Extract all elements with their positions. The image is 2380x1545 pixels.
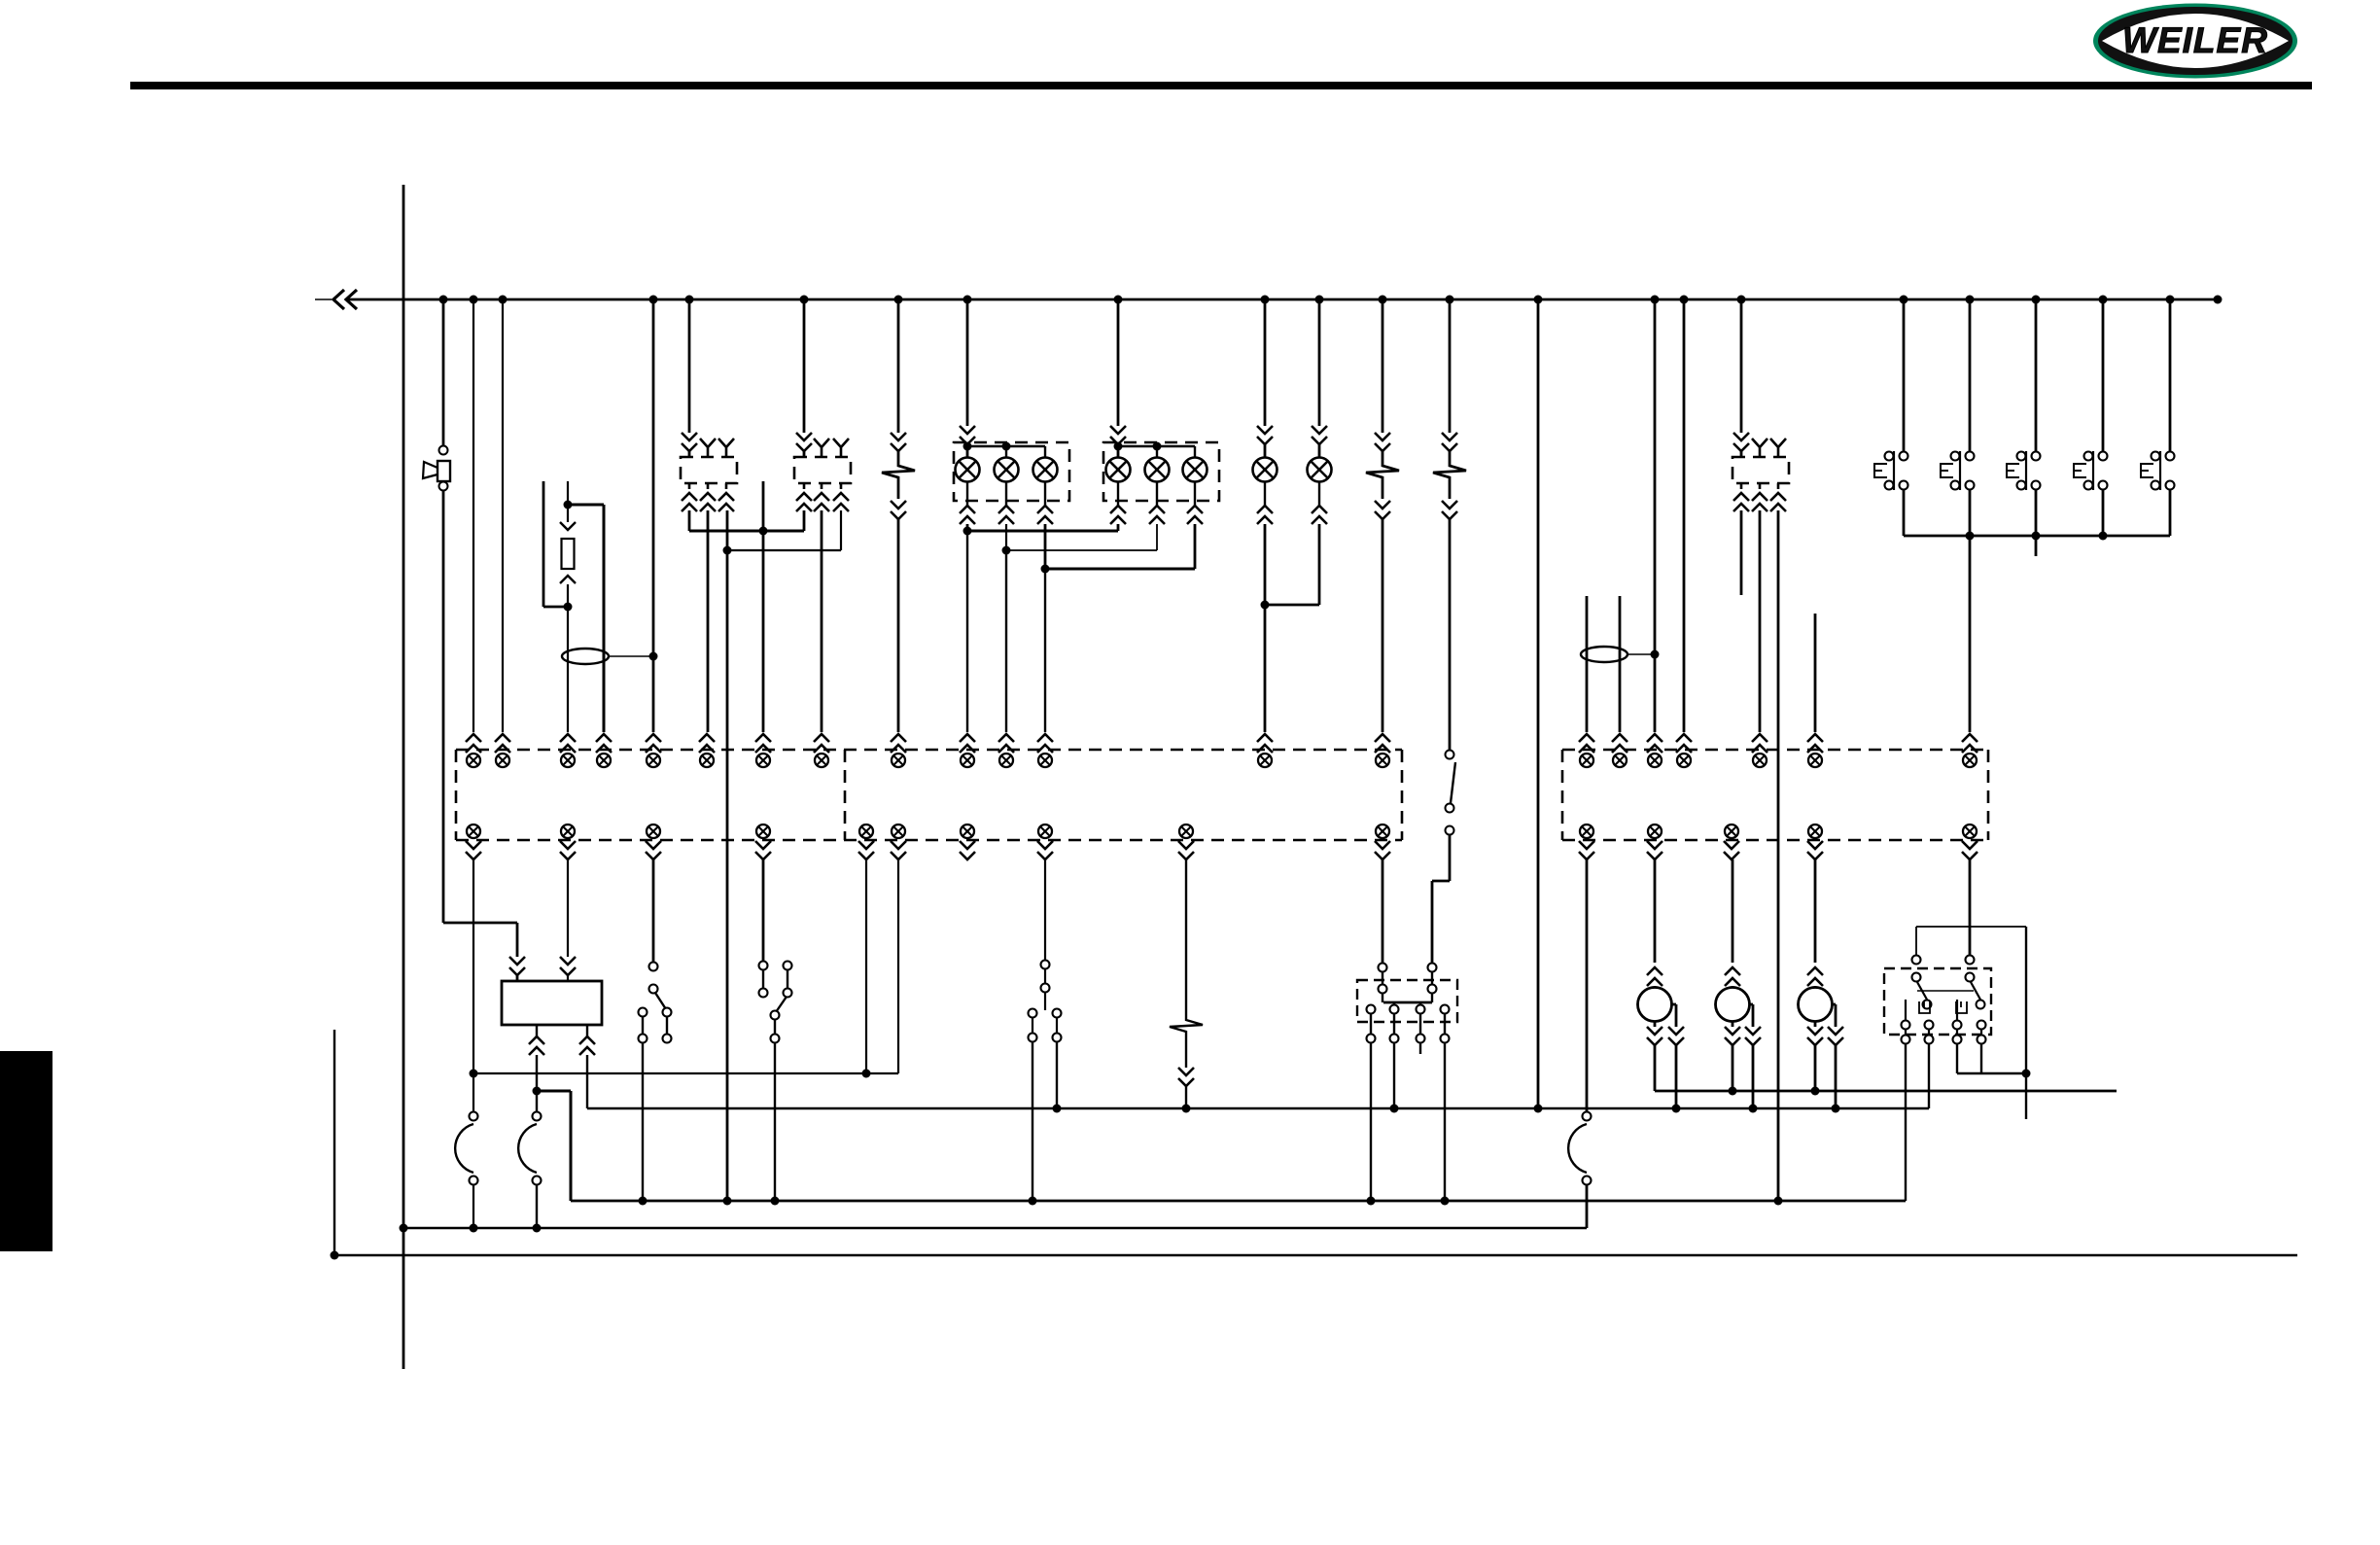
- svg-text:WEILER: WEILER: [2122, 20, 2268, 60]
